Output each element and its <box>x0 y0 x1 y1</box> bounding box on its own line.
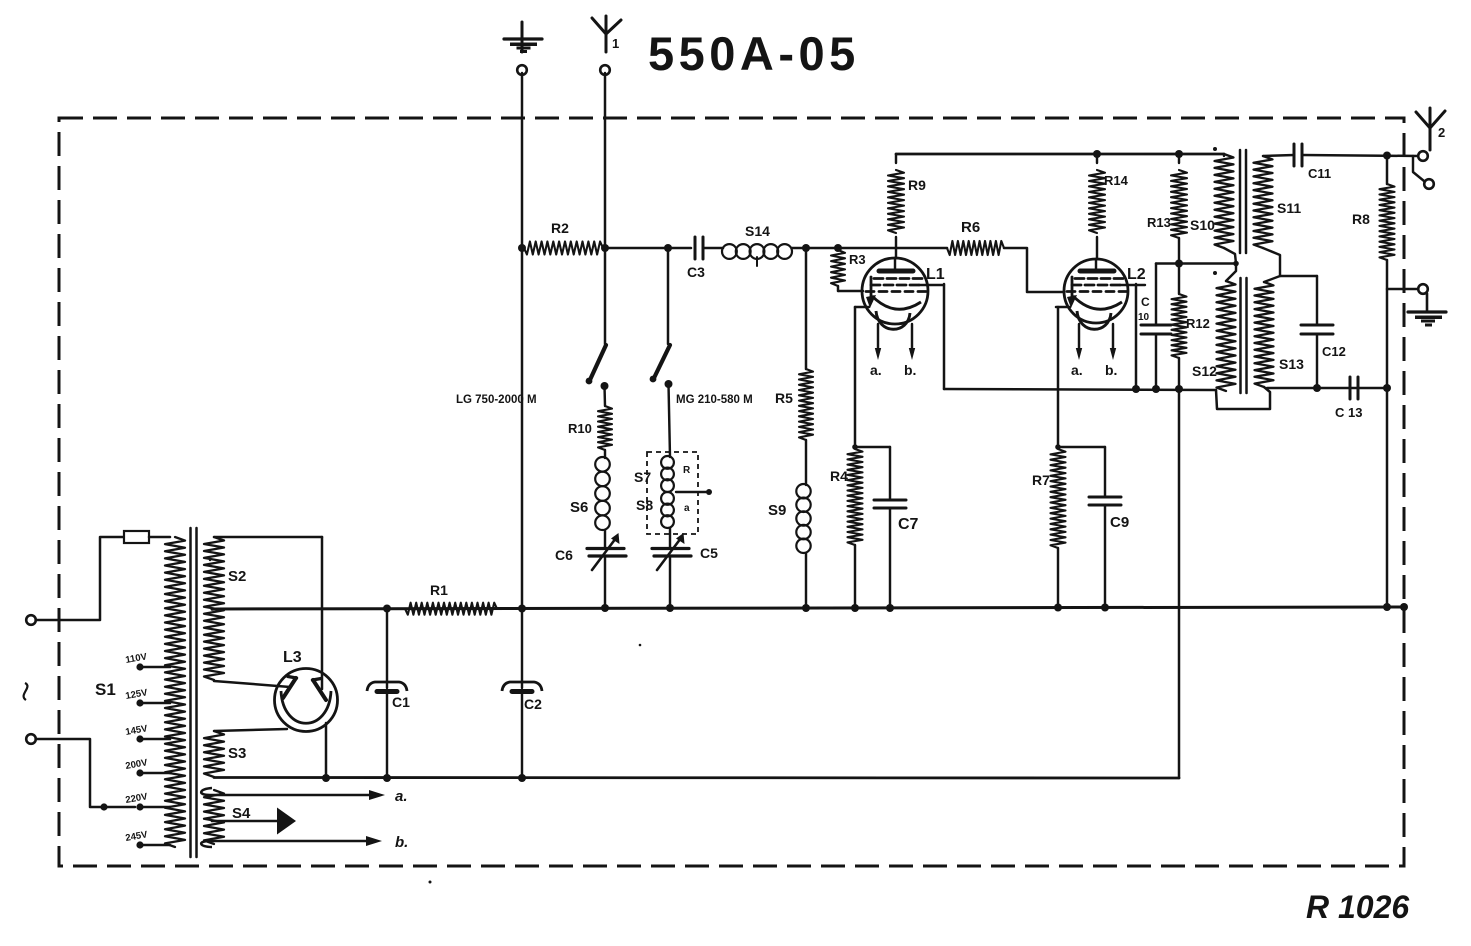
node: junction R3 / grid bus <box>834 244 842 252</box>
wire: S11 bottom to S13 top / C12 <box>1263 248 1317 282</box>
wire: L2 cathode to R7 <box>1057 307 1060 447</box>
label: MG 210-580 M <box>676 394 753 406</box>
node: R8 / bus <box>1383 603 1391 611</box>
tap of S7/S8 <box>676 465 712 514</box>
svg-text:R 1026: R 1026 <box>1306 889 1409 925</box>
svg-text:L2: L2 <box>1127 266 1146 283</box>
svg-text:a.: a. <box>395 788 408 805</box>
svg-text:a.: a. <box>1071 362 1083 378</box>
svg-text:C 13: C 13 <box>1335 405 1362 420</box>
tap 200V on primary <box>125 757 170 776</box>
capacitor C9 <box>1089 447 1129 607</box>
svg-text:R4: R4 <box>830 468 848 484</box>
svg-text:2: 2 <box>1438 125 1445 140</box>
svg-text:550A-05: 550A-05 <box>648 27 860 80</box>
winding S4 (heater) <box>204 790 251 844</box>
resistor R8 <box>1352 155 1395 606</box>
wire: S3 top to L3 filament <box>214 729 287 731</box>
wire: stub to pickup terminal <box>1413 156 1424 181</box>
svg-text:a: a <box>684 503 690 514</box>
wire: screen junction line (y=265) <box>1156 262 1236 265</box>
winding S3 (rectifier filament) <box>204 731 246 777</box>
svg-text:R12: R12 <box>1186 316 1210 331</box>
svg-text:S7: S7 <box>634 469 651 485</box>
svg-text:C3: C3 <box>687 264 705 280</box>
node: R8 top junction <box>1383 152 1391 160</box>
wire: main chassis bus (y=608) <box>212 607 1404 609</box>
wire: secondary line (y=388) <box>1267 387 1387 390</box>
svg-text:C6: C6 <box>555 547 573 563</box>
tube L1 (RF tetrode) <box>855 258 945 378</box>
svg-text:S10: S10 <box>1190 217 1215 233</box>
svg-text:C1: C1 <box>392 694 410 710</box>
resistor R10 <box>568 406 612 450</box>
drawing number R 1026 <box>1306 889 1409 925</box>
svg-text:S1: S1 <box>95 680 116 699</box>
wire: fuse to primary top <box>149 536 170 539</box>
wire: S14 to R5-branch <box>792 247 806 250</box>
capacitor C11 <box>1294 144 1331 181</box>
capacitor C10 <box>1138 264 1171 390</box>
svg-text:MG 210-580 M: MG 210-580 M <box>676 394 753 406</box>
wire: C5 to chassis bus <box>669 556 671 608</box>
wire: S2 centre tap to bus <box>212 608 213 611</box>
svg-text:S4: S4 <box>232 805 251 822</box>
wire: grid bus to R5 <box>805 248 808 369</box>
svg-text:R2: R2 <box>551 220 569 236</box>
svg-text:R6: R6 <box>961 219 980 236</box>
wire: antenna A1 down-lead (x=605) <box>604 73 607 344</box>
wire: R10 to S6 <box>604 450 606 458</box>
coil S9 <box>768 484 811 553</box>
wire: R6 to L2 control grid <box>1004 248 1064 292</box>
svg-text:C2: C2 <box>524 696 542 712</box>
svg-text:R3: R3 <box>849 252 866 267</box>
svg-text:S13: S13 <box>1279 356 1304 372</box>
node: L3 stem / return line <box>322 774 330 782</box>
resistor R14 <box>1089 154 1129 259</box>
wire: switch MG to S7 <box>669 384 671 457</box>
wire: R5 to S9 <box>805 440 807 485</box>
svg-text:a.: a. <box>870 362 882 378</box>
coil unit S7/S8 dashed enclosure <box>647 452 698 534</box>
svg-text:R: R <box>683 465 691 476</box>
node: C9 / bus <box>1101 604 1109 612</box>
node: switch MG pivot <box>665 380 673 388</box>
capacitor C13 <box>1335 377 1362 420</box>
wire: R8 tap to earth terminal <box>1387 288 1418 291</box>
wire: S4 to heater a. <box>201 788 407 805</box>
svg-text:C12: C12 <box>1322 344 1346 359</box>
wire: switch LG to R10 <box>603 386 606 406</box>
winding S11 <box>1254 156 1302 248</box>
svg-text:S3: S3 <box>228 745 246 762</box>
ground symbol (right) <box>1408 294 1446 327</box>
svg-text:1: 1 <box>612 36 619 51</box>
capacitor C7 <box>874 447 919 608</box>
wire: R4 junction to C7 <box>855 446 890 448</box>
tap 125V on primary <box>125 687 170 706</box>
svg-text:b.: b. <box>1105 362 1117 378</box>
terminal: earth binding post <box>517 65 527 75</box>
wire: S9 to chassis bus <box>805 553 807 608</box>
svg-text:R13: R13 <box>1147 215 1171 230</box>
terminal: antenna A2 post <box>1418 151 1428 161</box>
wire: R7 junction to C9 <box>1058 446 1105 448</box>
capacitor C1 <box>367 608 410 778</box>
node: switch LG pivot <box>601 382 609 390</box>
resistor R12 <box>1172 264 1210 390</box>
node: 220V tap junction <box>100 803 107 810</box>
resistor R3 <box>831 250 866 291</box>
svg-text:L1: L1 <box>926 266 945 283</box>
svg-text:R14: R14 <box>1104 173 1129 188</box>
node: R7-C9 junction <box>1055 444 1061 450</box>
tap 245V on primary <box>125 829 170 848</box>
transformer core S10/S11 <box>1240 150 1246 253</box>
wire: S10 top to HT bus <box>1223 154 1225 156</box>
wire: S2 bottom to L3 anode 2 <box>214 681 290 687</box>
svg-text:LG 750-2000 M: LG 750-2000 M <box>456 394 537 406</box>
svg-text:b.: b. <box>904 362 916 378</box>
node: C12 / secondary line <box>1313 384 1321 392</box>
svg-text:R7: R7 <box>1032 472 1050 488</box>
node: C1 / return line <box>383 774 391 782</box>
svg-text:C: C <box>1141 295 1150 309</box>
svg-text:C5: C5 <box>700 545 718 561</box>
wire: S2 top to L3 anode <box>214 537 322 689</box>
ground symbol (top, antenna earth) <box>504 22 542 53</box>
switch (LG band) arm <box>586 345 606 384</box>
node: C13-R8 junction <box>1383 384 1391 392</box>
resistor R2 <box>524 220 603 255</box>
winding S13 <box>1255 282 1305 387</box>
wire: earth terminal down-lead (x=522) <box>521 73 524 608</box>
coil S6 <box>570 457 610 530</box>
trimmer capacitor C5 <box>652 528 718 570</box>
wire: L1 screen drop (x=944) <box>943 284 946 389</box>
wire: S12/S13 bottom strap <box>1216 387 1270 409</box>
svg-text:10: 10 <box>1138 312 1150 323</box>
node: R4 / bus <box>851 604 859 612</box>
resistor R6 <box>947 219 1004 255</box>
coil S14 <box>722 223 792 266</box>
node: R13 / HT bus <box>1175 150 1183 158</box>
fuse <box>124 531 149 543</box>
terminal: mains post 1 <box>26 615 36 625</box>
switch (MG band) arm <box>650 345 670 382</box>
svg-text:S11: S11 <box>1277 200 1301 216</box>
resistor R13 <box>1147 154 1187 264</box>
wire: antenna branch MG (x=668) <box>667 248 670 344</box>
winding S12 <box>1192 271 1236 391</box>
wire: HT bus (y=154) <box>896 153 1224 156</box>
wire: S10 bottom to screen junction <box>1224 248 1236 264</box>
winding S10 <box>1190 147 1234 248</box>
wire: S11 top to C11 <box>1263 155 1294 156</box>
tap 220V on primary <box>125 791 170 810</box>
node: R12 / AVC line <box>1175 385 1183 393</box>
tube L2 (tetrode) <box>1056 259 1146 378</box>
node: R13-R12 junction <box>1175 260 1183 268</box>
capacitor C2 <box>502 608 542 778</box>
svg-text:C9: C9 <box>1110 514 1129 531</box>
svg-text:R1: R1 <box>430 582 448 598</box>
label: LG 750-2000 M <box>456 394 537 406</box>
antenna A2 symbol <box>1416 108 1445 150</box>
coil S7 <box>634 456 674 492</box>
wire: R12 return drop (x=1179) <box>1178 389 1181 778</box>
label: mains ~ <box>24 683 28 700</box>
node: C10 / AVC line <box>1152 385 1160 393</box>
svg-text:R5: R5 <box>775 390 793 406</box>
winding S1 (primary) <box>95 537 185 847</box>
svg-text:S9: S9 <box>768 502 786 519</box>
node: C7 / bus <box>886 604 894 612</box>
antenna A1 symbol <box>592 16 621 52</box>
node: junction antenna-lead / grid bus <box>601 244 609 252</box>
svg-text:C7: C7 <box>898 516 919 533</box>
node: S6 branch / bus <box>601 604 609 612</box>
svg-text:R9: R9 <box>908 177 926 193</box>
resistor R4 <box>830 449 863 608</box>
trimmer capacitor C6 <box>555 530 626 570</box>
wire: S12 top to screen junction <box>1226 261 1239 281</box>
node: R14 / HT bus <box>1093 150 1101 158</box>
svg-text:C11: C11 <box>1308 166 1331 181</box>
terminal: antenna A1 binding post <box>600 65 610 75</box>
svg-text:b.: b. <box>395 834 408 851</box>
node: S7 branch / bus <box>666 604 674 612</box>
terminal: pickup post <box>1424 179 1434 189</box>
svg-text:L3: L3 <box>283 649 302 666</box>
terminal: mains post 2 <box>26 734 36 744</box>
svg-text:S2: S2 <box>228 568 246 585</box>
wire: heater/return line (y=778) <box>214 776 1179 779</box>
power transformer core <box>191 528 197 857</box>
node: C2 / bus <box>518 605 526 613</box>
wire: L3 output stem <box>325 723 328 778</box>
wire: grid bus R2 to C3 <box>605 247 691 250</box>
terminal: earth post (right) <box>1418 284 1428 294</box>
svg-text:S14: S14 <box>745 223 770 239</box>
tap 110V on primary <box>125 651 170 670</box>
node: junction MG-branch / grid bus <box>664 244 672 252</box>
svg-text:R10: R10 <box>568 421 592 436</box>
capacitor C3 <box>687 237 705 280</box>
wire: grid bus crossing anode lead to R6 <box>838 247 947 250</box>
node: L2 screen / AVC line <box>1132 385 1140 393</box>
winding S2 (HT secondary) <box>204 537 246 680</box>
wire: mains post 1 to fuse <box>36 537 124 620</box>
wire: C6 to chassis bus <box>604 556 606 608</box>
node: junction earth-lead / R2 <box>518 244 526 252</box>
tap 145V on primary <box>125 723 170 742</box>
node: C1 / bus <box>383 605 391 613</box>
node: junction R5-branch / grid bus <box>802 244 810 252</box>
svg-text:R8: R8 <box>1352 211 1370 227</box>
capacitor C12 <box>1301 276 1346 388</box>
S4 wiper arrow <box>212 808 296 835</box>
node: bus right end <box>1400 603 1408 611</box>
wire: screen/AVC line (y=389) <box>944 389 1216 390</box>
svg-text:S6: S6 <box>570 499 588 516</box>
svg-text:S12: S12 <box>1192 363 1217 379</box>
node: R4-C7 junction <box>852 444 858 450</box>
resistor R1 <box>405 582 497 615</box>
rectifier tube L3 <box>275 649 338 732</box>
wire: grid bus to R3 branch <box>806 247 838 250</box>
wire: C3 to S14 <box>703 247 723 250</box>
node: S9 branch / bus <box>802 604 810 612</box>
resistor R9 <box>888 154 926 258</box>
node: C2 / return line <box>518 774 526 782</box>
wire: L2 screen drop (x=1136) <box>1135 284 1138 389</box>
wire: mains post 2 to 220V tap <box>36 739 135 807</box>
resistor R7 <box>1032 449 1066 607</box>
wire: C11 to antenna 2 terminal <box>1302 155 1419 156</box>
transformer core S12/S13 <box>1241 278 1247 393</box>
svg-text:S8: S8 <box>636 497 653 513</box>
wire: L1 cathode to R4 <box>854 307 857 447</box>
wire: S4 to heater b. <box>201 834 408 851</box>
resistor R5 <box>775 369 813 440</box>
node: R7 / bus <box>1054 604 1062 612</box>
title 550A-05 <box>648 27 860 80</box>
coil S8 <box>636 492 674 528</box>
